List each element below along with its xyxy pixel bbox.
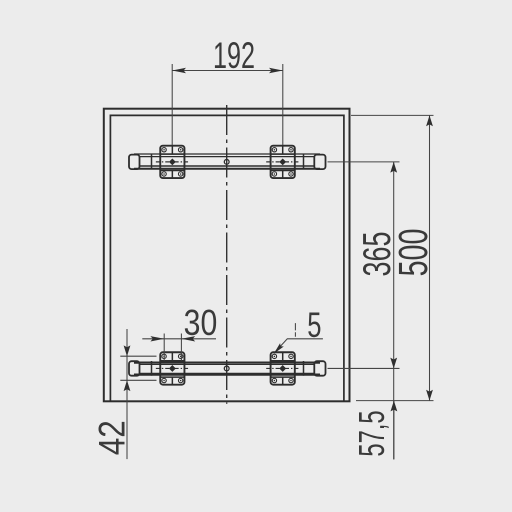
bracket top-left [156, 146, 189, 178]
callout 5: leader underline [275, 339, 323, 353]
rail right end cap [314, 361, 325, 376]
dimension 30: left arrow pointing right [150, 336, 164, 341]
svg-text:500: 500 [391, 229, 436, 277]
bracket top-right [266, 146, 299, 178]
rail body lines [134, 153, 320, 155]
rail right divider [303, 154, 305, 169]
bottom rail [129, 361, 326, 376]
bracket bottom-right [266, 352, 299, 384]
bracket bottom-left [156, 352, 189, 384]
dimension 30: dimension line left tail [142, 338, 164, 340]
dimension 192: right arrow [269, 68, 283, 73]
svg-text:30: 30 [184, 304, 218, 344]
dimension 192: extension lines [172, 64, 283, 145]
svg-text:57,5: 57,5 [352, 410, 392, 456]
bottom rail mid hole [224, 366, 229, 371]
rail body lines [134, 362, 320, 364]
dimension 365: bottom arrow [390, 358, 397, 369]
dimension 192: dimension line [172, 70, 283, 72]
svg-text:42: 42 [92, 420, 133, 455]
rail right end cap [314, 155, 325, 170]
rail right divider [303, 361, 305, 376]
rail left divider [151, 361, 153, 376]
dimension 500: top arrow [426, 115, 433, 126]
rail left end cap [129, 361, 140, 376]
top rail [129, 154, 326, 169]
dimension 192: left arrow [172, 68, 186, 73]
top rail mid hole [224, 159, 229, 164]
dimension 57,5: dimension line below [393, 401, 395, 460]
dimension 500: dimension line [429, 115, 431, 400]
panel vertical centerline [226, 105, 228, 404]
callout 5: arrow at screw [274, 343, 284, 354]
svg-text:192: 192 [213, 34, 255, 76]
dimension 42: up arrow [124, 380, 131, 391]
panel outer rectangle [104, 109, 350, 402]
dimension 42: down arrow [124, 345, 131, 356]
dimension 500: extension lines [351, 115, 434, 400]
dimension 57,5: up arrow [391, 401, 398, 412]
dimension 42: dimension line [126, 329, 128, 459]
dimension 365: top arrow [390, 162, 397, 173]
dimension 30: right arrow pointing left [181, 336, 195, 341]
dimension 500: bottom arrow [426, 390, 433, 401]
svg-text:5: 5 [307, 305, 321, 345]
rail left divider [151, 154, 153, 169]
dimension 30: extension lines [164, 334, 181, 361]
callout 5: small centerline dash [294, 323, 296, 337]
dimension 30: dimension line middle and right tail [164, 338, 216, 340]
dimension 365: dimension line [393, 162, 395, 460]
dimension 365: leader/extension lines from rail ends [328, 162, 400, 369]
rail left end cap [129, 155, 140, 170]
dimension 42: extension lines [120, 356, 156, 380]
panel inner edge line (left/top/right) [110, 115, 344, 401]
